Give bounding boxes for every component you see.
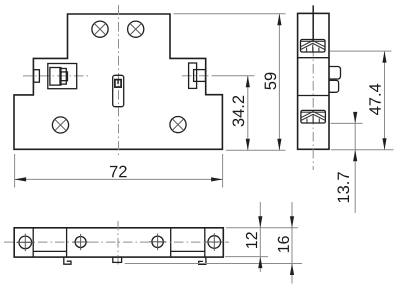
- dim 34.2 extension top: [213, 75, 255, 77]
- bottom view division 2: [66, 228, 68, 257]
- dim 12 arrow top: [258, 216, 262, 228]
- dim 16 arrow top: [290, 216, 294, 228]
- dim 72 text: [110, 166, 127, 178]
- dim 12 text: [246, 232, 257, 248]
- bottom view vertical centerline: [117, 221, 119, 267]
- dim 47.4/13.7 extension bottom: [331, 149, 394, 151]
- dim 72 extension left: [14, 154, 16, 188]
- rail tab center: [113, 257, 122, 262]
- terminal clamp upper: [301, 40, 326, 53]
- dim 47.4 line: [384, 51, 386, 150]
- left latch tab: [34, 70, 40, 83]
- dim 12 arrow bottom: [258, 257, 262, 269]
- side view actuator line: [312, 5, 314, 40]
- dim 12 line: [259, 202, 261, 272]
- dim 72 extension right: [222, 154, 224, 188]
- dim 47.4 text: [369, 84, 380, 115]
- mounting hole 3: [149, 234, 166, 251]
- dim 13.7 arrow bottom: [353, 150, 357, 162]
- left latch housing: [48, 64, 77, 89]
- screw circle top-left: [92, 21, 108, 37]
- front view vertical centerline: [118, 5, 120, 157]
- dim 34.2 arrow bottom: [246, 139, 250, 151]
- bottom view division 3: [170, 228, 172, 257]
- dim 47.4 arrow top: [382, 51, 386, 63]
- front view body outline: [14, 14, 222, 149]
- center slot opening: [115, 80, 121, 88]
- dim 59/34.2 extension bottom: [226, 149, 286, 151]
- dim 12/16 extension top: [226, 227, 298, 229]
- dim 16 arrow bottom: [290, 264, 294, 276]
- side view centerline: [312, 13, 314, 170]
- dim 16 line: [291, 202, 293, 284]
- dim 59 text: [264, 73, 276, 90]
- left latch plunger tip: [61, 72, 68, 81]
- dim 13.7 extension top: [331, 122, 363, 124]
- mounting hole 1: [16, 234, 34, 252]
- left latch plunger step: [60, 69, 66, 85]
- screw circle bottom-left: [52, 117, 68, 133]
- bottom view body: [14, 228, 223, 257]
- dim 16 text: [278, 236, 289, 252]
- dim 13.7 arrow top: [353, 112, 357, 124]
- dim 72 arrow right: [211, 177, 223, 181]
- bottom view inner ledge right: [171, 250, 205, 252]
- left latch centerline: [23, 75, 88, 77]
- dim 34.2 line: [247, 76, 249, 150]
- center slot housing: [113, 75, 124, 106]
- mounting hole 2: [73, 234, 89, 250]
- dim 34.2 text: [232, 96, 244, 127]
- dim 47.4 extension top: [330, 50, 392, 52]
- right latch lever: [189, 63, 197, 88]
- dim 47.4 arrow bottom: [382, 138, 386, 150]
- dim 59 line: [278, 14, 280, 151]
- bottom view horizontal centerline: [4, 241, 229, 243]
- center slot pin: [117, 81, 119, 85]
- dim 72 line: [15, 178, 223, 180]
- side view separation line upper: [298, 57, 329, 59]
- snap foot right: [199, 257, 206, 264]
- dim 59 arrow bottom: [277, 139, 281, 151]
- bottom view inner ledge left: [33, 250, 66, 252]
- side tab upper: [329, 67, 341, 80]
- side view separation line lower: [298, 95, 329, 97]
- side view body: [298, 13, 329, 149]
- right latch centerline: [182, 75, 213, 77]
- mounting hole 4: [205, 233, 223, 251]
- screw circle top-right: [128, 21, 144, 37]
- dim 16 extension bottom: [125, 263, 302, 265]
- terminal clamp lower: [301, 110, 326, 123]
- right latch block: [194, 70, 206, 82]
- bottom view division 4: [204, 228, 206, 257]
- snap foot left: [64, 257, 71, 264]
- dim 13.7 text: [337, 172, 349, 202]
- dim 34.2 arrow top: [246, 76, 250, 88]
- bottom view division 1: [32, 228, 34, 257]
- side tab lower: [329, 80, 339, 92]
- dim 59 extension top: [174, 13, 286, 15]
- dim 12 extension bottom: [225, 256, 268, 258]
- screw circle bottom-right: [170, 117, 186, 133]
- dim 13.7 line: [354, 114, 356, 214]
- dim 59 arrow top: [277, 14, 281, 26]
- dim 72 arrow left: [15, 177, 27, 181]
- left latch plunger: [50, 68, 61, 86]
